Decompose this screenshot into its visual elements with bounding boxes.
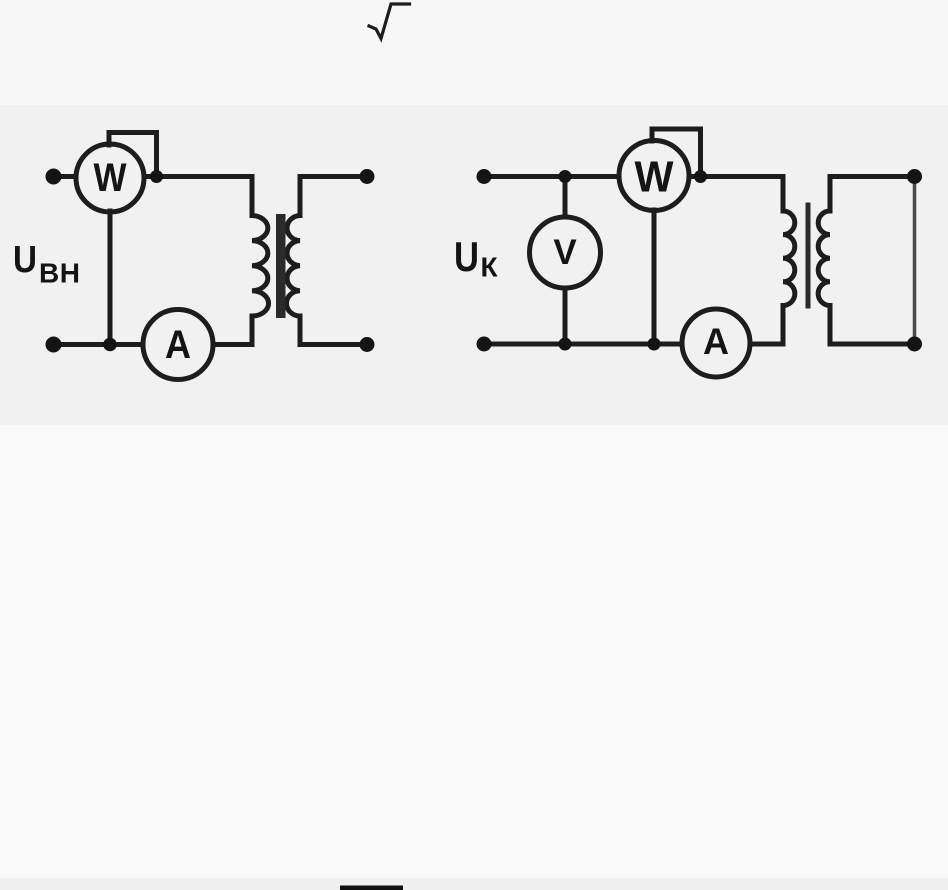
transformer core (right) <box>806 203 811 309</box>
wire: primary top lead (right) <box>781 177 786 212</box>
wire: voltmeter top lead <box>563 177 568 218</box>
wire: bottom rail left terminal to ammeter (right) <box>484 342 682 347</box>
fraction bar fragment at bottom <box>340 886 403 890</box>
wire: wattmeter to primary lead <box>144 174 252 179</box>
wire: top-left terminal to wattmeter <box>54 174 77 179</box>
inductor L4 secondary winding (right) <box>818 211 830 306</box>
radical sign (sqrt) top <box>369 4 410 39</box>
wire: primary top lead <box>250 177 255 216</box>
node: junction W bottom on bottom rail (right) <box>648 338 661 351</box>
svg-text:V: V <box>553 233 577 272</box>
wire: bottom rail left terminal to ammeter <box>54 342 144 347</box>
wire: primary bottom lead (right) <box>781 306 786 345</box>
wire: wattmeter potential-coil loop (right) <box>652 129 701 177</box>
node: left circuit secondary bottom terminal <box>360 337 375 352</box>
node: right circuit bottom-left terminal <box>477 337 492 352</box>
wire: ammeter to primary bottom lead <box>213 342 252 347</box>
svg-text:U: U <box>454 233 479 280</box>
node: left circuit secondary top terminal <box>360 169 375 184</box>
wire: secondary top lead and wire to right terminal <box>830 177 915 212</box>
wire: wattmeter potential-coil loop <box>109 133 157 177</box>
svg-text:ВН: ВН <box>39 258 80 289</box>
node: left circuit top-left terminal <box>46 169 62 185</box>
node: junction W bottom on bottom rail (left) <box>103 338 117 352</box>
svg-text:W: W <box>635 153 674 202</box>
svg-text:W: W <box>94 156 127 200</box>
wire: voltmeter bottom lead <box>563 288 568 344</box>
wire: wattmeter bottom lead (right) <box>652 210 657 344</box>
node: junction voltmeter bottom <box>559 338 572 351</box>
wire: top rail left terminal to wattmeter <box>484 174 619 179</box>
wire: wattmeter to primary lead (top) <box>689 174 783 179</box>
op-amp? no: wattmeter W circle <box>76 144 144 212</box>
node: junction of W loop on top wire (right) <box>694 170 707 183</box>
wire: wattmeter bottom lead down to bottom rail <box>108 211 113 345</box>
svg-text:U: U <box>13 239 37 281</box>
transformer core (left) <box>276 214 286 318</box>
wire: secondary bottom lead and bottom-right wire <box>300 316 367 345</box>
inductor L1 primary winding <box>252 216 269 317</box>
node: junction of W loop on top wire (left) <box>150 170 163 183</box>
inductor L2 secondary winding <box>286 216 300 317</box>
ammeter A circle <box>143 310 213 380</box>
node: left circuit bottom-left terminal <box>46 337 62 353</box>
wire: secondary bottom lead and wire to right terminal <box>830 306 915 345</box>
node: right circuit secondary bottom terminal <box>907 337 922 352</box>
node: right circuit secondary top terminal <box>907 169 922 184</box>
voltmeter V circle <box>530 217 601 288</box>
wire: short-circuit link right side <box>913 177 917 345</box>
node: junction voltmeter top <box>559 170 572 183</box>
wire: secondary top lead and top-right wire <box>300 177 367 216</box>
svg-text:К: К <box>481 252 499 283</box>
inductor L3 primary winding (right) <box>783 211 795 306</box>
wire: primary bottom lead <box>250 316 255 345</box>
wire: ammeter to primary bottom lead (right) <box>750 342 783 347</box>
svg-text:A: A <box>165 323 191 367</box>
node: right circuit top-left terminal <box>477 169 492 184</box>
wattmeter W circle (right) <box>619 141 689 211</box>
svg-text:A: A <box>703 321 729 362</box>
ammeter A circle (right) <box>682 309 750 377</box>
